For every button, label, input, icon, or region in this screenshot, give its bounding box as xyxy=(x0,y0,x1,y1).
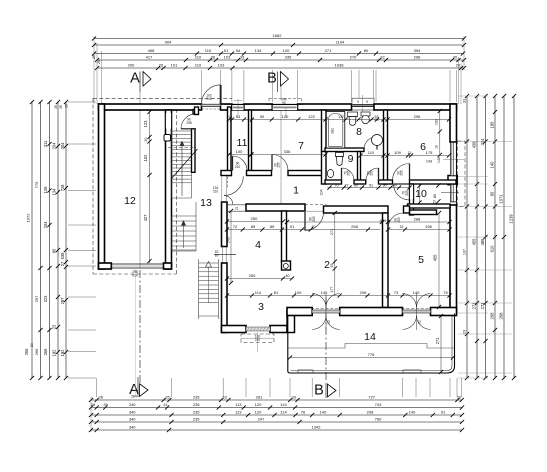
svg-text:75: 75 xyxy=(443,290,448,295)
top block left extension lines xyxy=(93,36,95,104)
west wall of rooms 4 and 3 upper xyxy=(222,202,228,247)
svg-text:196: 196 xyxy=(425,224,432,229)
svg-text:73: 73 xyxy=(394,290,399,295)
left block extension lines xyxy=(68,101,96,103)
rooms 3-2-5 bottom dim row xyxy=(227,295,450,297)
svg-text:19: 19 xyxy=(434,145,438,149)
door room 7 swing xyxy=(272,155,288,171)
interior dim room 11 width xyxy=(229,154,251,156)
french door 1 swing arcs xyxy=(312,294,326,308)
door room 10 swing xyxy=(394,184,410,200)
svg-text:245: 245 xyxy=(227,237,231,243)
svg-text:297: 297 xyxy=(60,297,65,305)
svg-text:26: 26 xyxy=(91,402,96,407)
svg-text:205: 205 xyxy=(405,190,409,196)
svg-text:143: 143 xyxy=(426,160,432,164)
garage door opening in right wall xyxy=(166,113,171,129)
svg-text:304: 304 xyxy=(60,142,65,150)
svg-text:1239: 1239 xyxy=(509,214,514,224)
svg-text:266: 266 xyxy=(24,348,29,356)
svg-text:109: 109 xyxy=(394,150,401,155)
svg-text:51: 51 xyxy=(224,48,229,53)
svg-text:120: 120 xyxy=(255,410,262,415)
svg-text:192: 192 xyxy=(60,349,65,357)
washbasin in room 9 xyxy=(327,170,333,178)
wall west of room 11 xyxy=(228,107,232,176)
svg-text:26: 26 xyxy=(159,63,164,68)
dashed line across stairs xyxy=(168,147,196,149)
jog wall connecting room3 wall to terrace wall xyxy=(287,311,295,333)
svg-text:20: 20 xyxy=(144,137,148,141)
porch outside room 3 door dashed xyxy=(241,334,274,343)
room 10 opening in west wall xyxy=(410,185,413,199)
svg-text:290: 290 xyxy=(128,63,135,68)
svg-text:120: 120 xyxy=(283,48,290,53)
svg-text:205: 205 xyxy=(370,170,374,176)
svg-text:195: 195 xyxy=(490,121,495,129)
room 4 dim row upper xyxy=(227,221,283,223)
svg-text:195: 195 xyxy=(186,121,192,125)
south wall rooms 2-5 segment west xyxy=(287,308,312,316)
svg-text:91: 91 xyxy=(290,224,295,229)
svg-text:298: 298 xyxy=(367,410,374,415)
svg-text:14: 14 xyxy=(364,331,376,343)
room 5 dim width xyxy=(388,221,450,223)
south wall of rooms 9 and 6 zone segment a xyxy=(325,180,342,184)
entry door swing arc xyxy=(202,85,221,104)
svg-text:210: 210 xyxy=(213,189,219,193)
garage left wall xyxy=(99,104,105,269)
svg-text:485: 485 xyxy=(480,238,485,246)
extension lines from top wall up to chains xyxy=(201,70,203,102)
svg-text:33: 33 xyxy=(240,55,245,60)
terrace outline xyxy=(288,314,455,374)
entry door sill xyxy=(202,104,221,106)
svg-text:54: 54 xyxy=(236,114,241,119)
corridor dim row xyxy=(328,187,411,189)
svg-text:270: 270 xyxy=(350,55,357,60)
T-wall stem between rooms 4 and 2 xyxy=(282,211,287,262)
svg-text:13: 13 xyxy=(200,197,212,209)
svg-text:1072: 1072 xyxy=(26,213,31,223)
room 3 south wall east segment xyxy=(270,326,287,333)
svg-text:120: 120 xyxy=(282,114,289,119)
door room 11 swing xyxy=(233,156,248,171)
entry door leaf xyxy=(220,85,222,104)
svg-text:54: 54 xyxy=(236,48,241,53)
svg-text:311: 311 xyxy=(43,140,48,147)
svg-text:175: 175 xyxy=(426,150,433,155)
svg-text:340: 340 xyxy=(129,425,136,430)
svg-text:258: 258 xyxy=(351,224,358,229)
svg-text:137: 137 xyxy=(338,115,344,119)
svg-text:80: 80 xyxy=(490,191,495,196)
window 7 axis line xyxy=(285,108,287,118)
room 5 vertical dim xyxy=(438,213,440,307)
svg-text:288: 288 xyxy=(414,217,421,222)
window room 7 xyxy=(272,105,297,111)
room 10 south wall xyxy=(408,204,451,208)
door hall to room 1 small leaf swing xyxy=(224,196,233,205)
svg-text:110: 110 xyxy=(205,48,212,53)
garage roof overhang dashed outline xyxy=(93,97,232,99)
svg-text:110: 110 xyxy=(368,150,375,155)
house top wall segment: window11 to window7 xyxy=(244,104,272,110)
french door 2 swing arcs xyxy=(403,294,417,308)
window 1 axis line xyxy=(443,159,464,161)
svg-text:100: 100 xyxy=(236,149,243,154)
svg-text:80: 80 xyxy=(52,248,57,253)
svg-text:103: 103 xyxy=(224,55,231,60)
svg-text:72: 72 xyxy=(233,224,238,229)
svg-text:104: 104 xyxy=(319,189,323,195)
svg-text:3: 3 xyxy=(258,301,264,313)
svg-text:323: 323 xyxy=(43,295,48,303)
wall between room 7 and bath 8 xyxy=(322,110,327,152)
svg-text:120: 120 xyxy=(255,402,262,407)
lower flight walk line xyxy=(183,222,185,248)
svg-text:727: 727 xyxy=(368,395,375,400)
svg-text:266: 266 xyxy=(34,348,39,355)
svg-text:266: 266 xyxy=(43,348,48,356)
svg-text:468: 468 xyxy=(148,48,155,53)
dimension chain: right block xyxy=(466,96,468,378)
room 5 north wall east portion xyxy=(410,210,437,215)
bath south wall / room 9 north wall xyxy=(325,148,364,152)
serving hatch niche in west wall xyxy=(222,246,228,248)
svg-text:271: 271 xyxy=(330,229,334,235)
south wall rooms 2-5 segment east xyxy=(431,308,457,316)
staircase upper flight steps xyxy=(172,130,192,132)
svg-text:455: 455 xyxy=(432,254,437,262)
stair bay door stub xyxy=(193,110,196,115)
door hall to room 1 large leaf swing xyxy=(224,176,243,195)
svg-text:13: 13 xyxy=(408,151,412,155)
svg-text:247: 247 xyxy=(258,417,265,422)
svg-text:76: 76 xyxy=(301,410,306,415)
svg-text:113: 113 xyxy=(235,402,242,407)
terrace vertical dimension xyxy=(440,316,442,372)
svg-text:26: 26 xyxy=(97,60,101,64)
south wall segment b xyxy=(354,180,366,184)
staircase break line xyxy=(171,149,198,179)
svg-text:26: 26 xyxy=(54,105,58,109)
svg-text:140: 140 xyxy=(413,290,420,295)
svg-text:235: 235 xyxy=(193,417,200,422)
extension line below room3 door xyxy=(257,333,259,353)
svg-text:32: 32 xyxy=(380,55,385,60)
svg-text:205: 205 xyxy=(347,170,351,176)
svg-text:39: 39 xyxy=(103,402,108,407)
svg-text:102: 102 xyxy=(434,119,438,125)
svg-text:B: B xyxy=(267,71,277,87)
svg-text:51: 51 xyxy=(369,183,373,187)
svg-text:20: 20 xyxy=(65,104,69,108)
svg-text:271: 271 xyxy=(435,337,440,345)
room 4 west vertical dim xyxy=(230,211,232,283)
top block right extension lines xyxy=(463,36,465,70)
svg-text:1038: 1038 xyxy=(335,63,345,68)
svg-text:89: 89 xyxy=(270,224,275,229)
svg-text:192: 192 xyxy=(52,349,57,357)
svg-text:A: A xyxy=(130,71,140,87)
chimney block at T-stem foot xyxy=(282,261,291,270)
interior dim room 6 row xyxy=(361,155,450,157)
svg-text:90: 90 xyxy=(382,183,386,187)
svg-text:776: 776 xyxy=(368,352,375,357)
svg-text:140: 140 xyxy=(409,410,416,415)
door room 9 swing xyxy=(342,168,355,181)
svg-text:268: 268 xyxy=(499,312,504,320)
window 7 dashed lintel box xyxy=(269,97,302,99)
terrace bottom edge notch east xyxy=(403,370,421,373)
svg-text:20: 20 xyxy=(30,343,34,347)
svg-text:250: 250 xyxy=(249,273,256,278)
svg-text:205: 205 xyxy=(312,216,316,222)
door bath lobby swing xyxy=(366,168,379,181)
room 4 lower dim row xyxy=(227,278,292,280)
right block extension lines xyxy=(458,141,512,143)
door room 6 swing xyxy=(393,164,410,181)
svg-text:340: 340 xyxy=(129,417,136,422)
staircase lower flight steps xyxy=(172,215,197,217)
room 10 west wall xyxy=(410,184,414,215)
svg-text:41: 41 xyxy=(163,402,168,407)
svg-text:70: 70 xyxy=(334,183,338,187)
room 10 west dim line xyxy=(419,185,421,205)
svg-text:80: 80 xyxy=(433,194,437,198)
garage bottom wall left pier xyxy=(99,263,112,269)
room 5 north wall east piece xyxy=(404,206,410,213)
svg-text:235: 235 xyxy=(193,395,200,400)
svg-text:20: 20 xyxy=(457,395,462,400)
svg-text:32: 32 xyxy=(400,225,404,229)
svg-text:18: 18 xyxy=(228,115,232,119)
svg-text:152: 152 xyxy=(143,154,148,162)
svg-text:205: 205 xyxy=(277,162,281,168)
house top wall segment: window7 to chimney xyxy=(298,104,352,110)
terrace dimension line xyxy=(290,357,453,359)
svg-text:33: 33 xyxy=(463,99,467,103)
svg-text:23: 23 xyxy=(463,330,467,334)
svg-text:30: 30 xyxy=(453,55,458,60)
dimension chain: bottom block xyxy=(91,399,462,401)
svg-text:52: 52 xyxy=(327,320,331,324)
vestibule west wall with door stub xyxy=(195,107,199,115)
svg-text:122: 122 xyxy=(308,114,315,119)
south wall of rooms 11-7 segment a xyxy=(221,171,232,176)
svg-text:90: 90 xyxy=(354,183,358,187)
svg-text:140: 140 xyxy=(320,410,327,415)
svg-text:8: 8 xyxy=(356,126,362,138)
terrace inner edge line xyxy=(290,316,452,371)
svg-text:904: 904 xyxy=(165,40,172,45)
svg-text:281: 281 xyxy=(256,395,263,400)
svg-text:137: 137 xyxy=(463,249,467,255)
french door 1 sill xyxy=(312,310,340,313)
svg-text:114: 114 xyxy=(280,410,287,415)
window 11 axis line xyxy=(237,99,239,116)
svg-text:296: 296 xyxy=(414,114,421,119)
top wall vent block xyxy=(352,98,374,104)
south wall segment c xyxy=(379,180,393,184)
svg-text:23: 23 xyxy=(52,324,57,329)
svg-text:235: 235 xyxy=(193,402,200,407)
svg-text:103: 103 xyxy=(218,63,225,68)
svg-text:9: 9 xyxy=(357,100,359,104)
svg-text:26: 26 xyxy=(59,105,63,109)
svg-text:140: 140 xyxy=(437,157,441,163)
svg-text:40: 40 xyxy=(286,274,290,278)
interior dim room 6 vertical xyxy=(439,110,441,155)
window room 11 xyxy=(232,105,244,111)
garage door sill xyxy=(111,263,163,265)
section line B-B lower xyxy=(325,297,327,381)
door hall to stairs swing arc xyxy=(181,114,196,129)
svg-text:128: 128 xyxy=(43,186,48,194)
toilet in room 9 xyxy=(336,153,344,157)
svg-text:206: 206 xyxy=(360,290,367,295)
svg-text:538: 538 xyxy=(60,252,65,260)
svg-text:250: 250 xyxy=(251,216,258,221)
svg-text:10: 10 xyxy=(415,188,427,200)
section line B-B upper xyxy=(280,86,282,100)
svg-text:134: 134 xyxy=(52,188,57,196)
svg-text:114: 114 xyxy=(255,290,262,295)
svg-text:91: 91 xyxy=(441,410,446,415)
svg-text:9: 9 xyxy=(348,153,354,165)
room 2 vertical dim xyxy=(334,213,336,296)
svg-text:743: 743 xyxy=(375,402,382,407)
door room 2 swing xyxy=(305,212,324,231)
svg-text:90: 90 xyxy=(282,101,286,105)
svg-text:12: 12 xyxy=(124,195,136,207)
svg-text:4: 4 xyxy=(255,239,261,251)
svg-text:010: 010 xyxy=(132,273,138,277)
room 2 dim width xyxy=(287,221,382,223)
fuse box on garage wall xyxy=(164,135,171,142)
svg-text:340: 340 xyxy=(129,410,136,415)
right wall pier between windows xyxy=(448,176,457,185)
door bath 8 swing xyxy=(364,137,377,150)
svg-text:5: 5 xyxy=(418,254,424,266)
dimension chain: top block xyxy=(94,38,464,40)
svg-text:7: 7 xyxy=(298,140,304,152)
wall west of room 9 xyxy=(322,152,327,185)
right wall window 2 glazing xyxy=(450,184,456,202)
svg-text:235: 235 xyxy=(193,410,200,415)
svg-text:26: 26 xyxy=(211,55,216,60)
right wall roller shutter dashed box xyxy=(458,141,466,207)
wall between rooms 11 and 7 xyxy=(249,110,252,171)
right wall window 1 glazing xyxy=(450,142,456,175)
garage and stair bay top wall xyxy=(99,104,202,110)
svg-text:204: 204 xyxy=(52,142,57,150)
garage door centre axis line xyxy=(135,269,137,397)
svg-text:268: 268 xyxy=(490,312,495,320)
svg-text:728: 728 xyxy=(60,184,65,192)
dimension chain: left block xyxy=(31,102,33,378)
svg-text:469: 469 xyxy=(380,218,387,223)
svg-text:26: 26 xyxy=(92,55,96,59)
svg-text:21: 21 xyxy=(235,207,239,211)
svg-text:240: 240 xyxy=(129,402,136,407)
svg-text:114: 114 xyxy=(280,402,287,407)
corridor south wall T-bar xyxy=(246,204,305,211)
south wall of rooms 11-7 segment c xyxy=(288,171,326,176)
interior dim room 7 width xyxy=(252,154,326,156)
svg-text:9: 9 xyxy=(366,100,368,104)
exterior cellar stairs xyxy=(198,259,200,319)
svg-text:417: 417 xyxy=(146,55,153,60)
svg-text:210: 210 xyxy=(206,97,212,101)
svg-text:101: 101 xyxy=(171,63,178,68)
svg-text:1682: 1682 xyxy=(273,33,283,38)
svg-text:427: 427 xyxy=(143,214,148,222)
svg-text:271: 271 xyxy=(325,48,332,53)
hall niche line xyxy=(214,254,236,256)
svg-text:80: 80 xyxy=(215,254,219,258)
low sill between hall and room 4 xyxy=(227,204,246,206)
svg-text:90: 90 xyxy=(260,114,265,119)
svg-text:140: 140 xyxy=(490,161,495,169)
svg-text:1071: 1071 xyxy=(499,194,504,204)
west wall of rooms 4 and 3 lower xyxy=(222,263,228,333)
svg-text:394: 394 xyxy=(414,48,421,53)
svg-text:296: 296 xyxy=(414,55,421,60)
bathtub in bath 8 xyxy=(326,112,345,149)
terrace bottom edge notch west xyxy=(298,370,313,373)
svg-text:775: 775 xyxy=(34,181,39,188)
svg-text:109: 109 xyxy=(295,290,302,295)
svg-text:123: 123 xyxy=(143,120,148,128)
house top wall segment: chimney to NE corner xyxy=(374,104,457,110)
svg-text:336: 336 xyxy=(284,149,291,154)
svg-text:113: 113 xyxy=(235,410,242,415)
south wall rooms 2-5 segment mid xyxy=(340,308,403,316)
svg-text:1: 1 xyxy=(293,185,299,197)
svg-text:205: 205 xyxy=(400,170,404,176)
svg-text:53: 53 xyxy=(375,115,379,119)
svg-text:40: 40 xyxy=(393,183,397,187)
window axis line room 10 xyxy=(441,192,459,194)
svg-text:81: 81 xyxy=(274,290,279,295)
house top wall segment: entry to window11 xyxy=(221,104,232,110)
svg-text:23: 23 xyxy=(433,200,437,204)
south wall of rooms 11-7 segment b xyxy=(247,171,272,176)
svg-text:110: 110 xyxy=(195,55,202,60)
house right wall upper (room 6) xyxy=(450,104,457,142)
svg-text:27: 27 xyxy=(345,183,349,187)
svg-text:760: 760 xyxy=(375,417,382,422)
svg-text:26: 26 xyxy=(165,395,170,400)
dashed line continuing T-bar xyxy=(305,204,326,206)
room 3 door sill xyxy=(246,327,270,331)
bottom block extension lines xyxy=(96,378,98,397)
svg-text:27: 27 xyxy=(60,261,65,266)
interior dim line rooms 11-7-8-6 top xyxy=(229,119,449,121)
terrace step line xyxy=(288,344,454,349)
svg-text:52: 52 xyxy=(418,320,422,324)
hall door opening reveal lines xyxy=(221,176,223,202)
svg-text:134: 134 xyxy=(255,48,262,53)
door hall opening dashes xyxy=(227,177,229,189)
svg-text:297: 297 xyxy=(34,295,39,302)
room 2 north wall xyxy=(324,206,389,213)
staircase walk line with up arrow xyxy=(181,142,183,196)
garage bottom wall right pier xyxy=(164,263,172,269)
wall between rooms 2 and 5 xyxy=(383,213,389,308)
